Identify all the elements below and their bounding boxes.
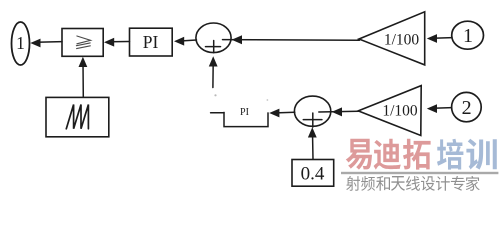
arrowhead up into comparator	[79, 57, 88, 67]
svg-text:1: 1	[16, 33, 25, 53]
watermark divider rule	[341, 172, 498, 174]
PI2 output stub wire	[211, 112, 224, 114]
comparator symbol (greater-equal with double bar)	[76, 36, 90, 49]
watermark big text blue part	[437, 139, 497, 170]
input node 2 circle	[452, 92, 482, 121]
sawtooth waveform symbol	[66, 105, 88, 129]
plus sign in S1	[206, 41, 221, 53]
wire PI2 up to S1 (upper segment)	[212, 62, 214, 88]
faint speck on broken wire	[214, 94, 216, 96]
amplifier G1 triangle	[359, 12, 425, 65]
PI2 open-top box	[224, 112, 268, 126]
faint speck near PI2	[267, 99, 269, 101]
arrowhead into comparator	[104, 38, 114, 47]
watermark tagline gray text	[346, 176, 479, 191]
wire comparator to output ellipse	[36, 41, 62, 44]
svg-text:2: 2	[462, 97, 472, 119]
wire summing junction S1 to PI	[180, 40, 197, 41]
arrowhead into S2	[332, 107, 342, 116]
amplifier G2 triangle	[358, 86, 421, 136]
arrowhead into G1	[427, 34, 437, 43]
wire input node 2 to G2	[433, 107, 452, 110]
wire 0.4 box to S2	[312, 133, 315, 160]
svg-text:1/100: 1/100	[382, 103, 418, 120]
arrowhead into PI2	[269, 109, 279, 118]
gain block 0.4 box	[292, 160, 334, 187]
wire sawtooth box to comparator	[82, 63, 84, 98]
arrowhead up into S1	[209, 56, 218, 66]
summing junction S2	[294, 96, 330, 126]
wire amplifier G2 to S2	[319, 110, 359, 113]
arrowhead up into S2	[308, 127, 317, 137]
arrowhead into S1	[232, 35, 242, 44]
svg-text:0.4: 0.4	[301, 164, 325, 185]
svg-text:1: 1	[463, 25, 473, 47]
arrowhead into PI box	[174, 37, 184, 46]
wire amplifier G1 to S1	[223, 39, 360, 42]
sawtooth generator box	[46, 97, 109, 136]
wire S2 to PI2	[276, 111, 295, 114]
svg-text:PI: PI	[143, 32, 159, 52]
arrowhead toward G2	[427, 104, 437, 113]
arrowhead into output ellipse	[30, 39, 40, 48]
summing junction S1	[196, 23, 231, 53]
PI box	[130, 28, 173, 56]
svg-text:PI: PI	[240, 107, 249, 118]
plus sign in S2	[303, 113, 322, 127]
comparator box U1	[62, 29, 103, 57]
svg-text:1/100: 1/100	[384, 32, 420, 49]
watermark big text pink part	[346, 139, 431, 170]
output ellipse node 1	[12, 22, 30, 65]
wire input node 1 to G1	[433, 37, 452, 40]
input node 1 circle	[452, 21, 484, 49]
wire PI to comparator	[110, 41, 130, 43]
